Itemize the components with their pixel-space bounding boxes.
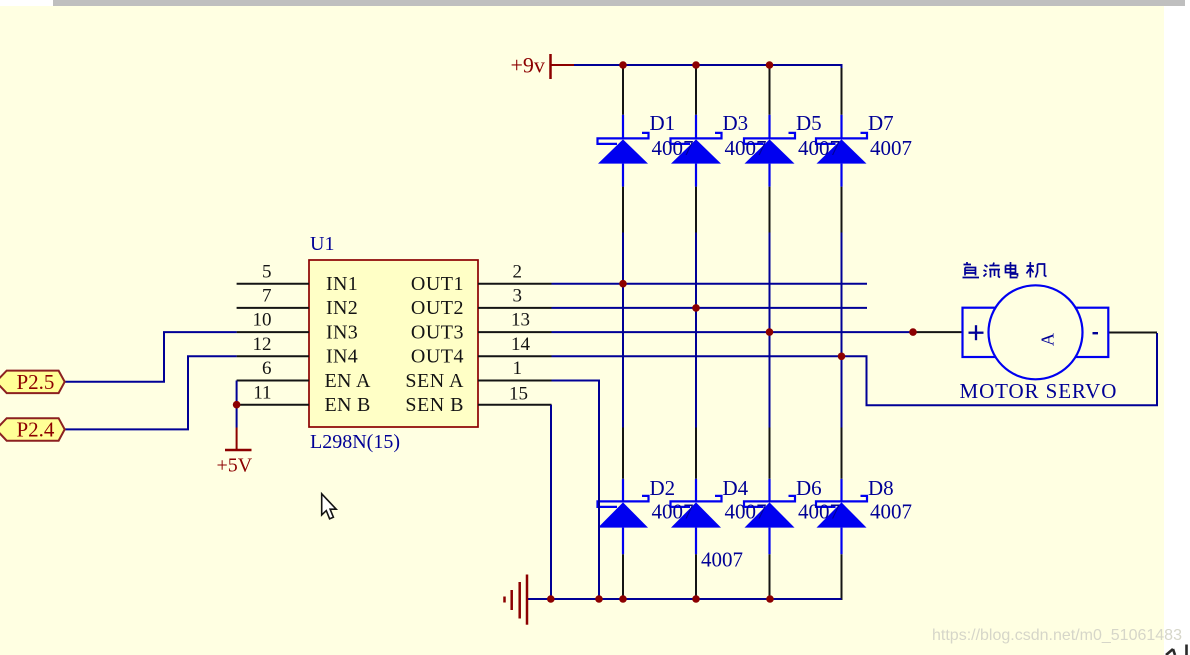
svg-text:A: A bbox=[1038, 333, 1058, 346]
svg-text:15: 15 bbox=[509, 383, 528, 404]
svg-text:IN4: IN4 bbox=[326, 346, 358, 368]
wire OUT4 row bbox=[552, 333, 1158, 405]
junction OUT3 D5 bbox=[766, 328, 774, 336]
pin 3 OUT2 bbox=[478, 307, 552, 309]
junction ground SEN B bbox=[547, 595, 555, 603]
motor body circle bbox=[989, 285, 1083, 379]
svg-text:D4: D4 bbox=[723, 476, 749, 500]
svg-text:IN1: IN1 bbox=[326, 273, 358, 295]
label Chinese DC motor bbox=[963, 262, 1047, 278]
svg-text:14: 14 bbox=[511, 334, 531, 355]
diode D8 bbox=[816, 479, 867, 554]
svg-text:IN2: IN2 bbox=[326, 297, 358, 319]
ground symbol bbox=[505, 575, 528, 625]
junction ground D4 bbox=[692, 595, 700, 603]
svg-text:OUT2: OUT2 bbox=[411, 297, 464, 319]
pin 11 EN B bbox=[237, 404, 309, 406]
wire column D5 upper black bbox=[769, 67, 771, 115]
wire SEN A bbox=[552, 381, 600, 600]
svg-text:5: 5 bbox=[262, 261, 272, 282]
junction ground SEN A bbox=[595, 595, 603, 603]
junction OUT4 D7 bbox=[838, 353, 846, 361]
svg-text:2: 2 bbox=[513, 261, 523, 282]
svg-text:OUT4: OUT4 bbox=[411, 346, 464, 368]
pin 6 EN A bbox=[237, 380, 309, 382]
svg-text:L298N(15): L298N(15) bbox=[310, 431, 400, 453]
junction EN B +5V bbox=[233, 401, 241, 409]
svg-text:13: 13 bbox=[511, 310, 530, 331]
diode D2 bbox=[598, 479, 649, 554]
char dian bbox=[1006, 262, 1018, 278]
wire column D6 black above diode bbox=[769, 428, 771, 479]
diode D3 bbox=[671, 115, 722, 187]
wire P2.5 to IN3 bbox=[65, 332, 237, 382]
svg-text:D2: D2 bbox=[650, 476, 676, 500]
wire column D8 black above diode bbox=[841, 428, 843, 479]
svg-text:4007: 4007 bbox=[701, 548, 743, 572]
char ji bbox=[1027, 262, 1047, 278]
pin 12 IN4 bbox=[237, 355, 309, 357]
pin 15 SEN B bbox=[478, 404, 552, 406]
junction ground D6 bbox=[766, 595, 774, 603]
wire column D5 mid black bbox=[769, 187, 771, 233]
svg-text:4007: 4007 bbox=[652, 500, 694, 524]
motor left pin bbox=[913, 331, 963, 333]
svg-text:+5V: +5V bbox=[217, 455, 253, 477]
svg-text:D3: D3 bbox=[723, 111, 749, 135]
diode D7 bbox=[816, 115, 867, 187]
pin 7 IN2 bbox=[237, 307, 309, 309]
wire column D3 mid black bbox=[695, 187, 697, 233]
motor terminal box bbox=[963, 308, 1109, 357]
power +5V pin bbox=[236, 428, 238, 451]
motor plus terminal bbox=[969, 325, 984, 340]
pin 10 IN3 bbox=[237, 331, 309, 333]
svg-text:D7: D7 bbox=[868, 111, 894, 135]
svg-text:D1: D1 bbox=[650, 111, 676, 135]
wire column D6 lower black bbox=[769, 554, 771, 599]
char liu bbox=[984, 263, 1001, 278]
svg-text:4007: 4007 bbox=[725, 500, 767, 524]
pin 14 OUT4 bbox=[478, 355, 552, 357]
svg-text:4007: 4007 bbox=[652, 136, 694, 160]
svg-text:EN A: EN A bbox=[325, 370, 371, 392]
mouse cursor bbox=[322, 494, 337, 519]
wire column D7 mid black bbox=[841, 187, 843, 233]
wire column D5 navy bbox=[769, 233, 771, 428]
wire column D1 upper black bbox=[622, 67, 624, 115]
diode D1 bbox=[598, 115, 649, 187]
wire column D7 upper black bbox=[841, 68, 843, 115]
svg-text:4007: 4007 bbox=[798, 500, 840, 524]
wire column D3 upper black bbox=[695, 67, 697, 115]
power +5V bar bbox=[225, 449, 252, 452]
pin 2 OUT1 bbox=[478, 283, 552, 285]
wire column D2 lower black bbox=[622, 554, 624, 599]
svg-text:MOTOR SERVO: MOTOR SERVO bbox=[960, 379, 1118, 403]
wire column D7 navy bbox=[841, 233, 843, 428]
wire column D2 black above diode bbox=[622, 428, 624, 479]
junction top rail D3 bbox=[692, 61, 700, 69]
svg-text:SEN A: SEN A bbox=[405, 370, 464, 392]
wire column D4 black above diode bbox=[695, 428, 697, 479]
svg-text:6: 6 bbox=[262, 358, 272, 379]
svg-text:OUT3: OUT3 bbox=[411, 321, 464, 343]
junction top rail D1 bbox=[619, 61, 627, 69]
svg-text:SEN B: SEN B bbox=[405, 394, 464, 416]
svg-text:4007: 4007 bbox=[725, 136, 767, 160]
wire OUT1 row bbox=[552, 283, 868, 285]
wire ground rail bbox=[527, 598, 842, 600]
motor minus terminal bbox=[1093, 332, 1099, 334]
svg-text:4007: 4007 bbox=[870, 500, 912, 524]
wire OUT3 row bbox=[552, 331, 914, 333]
junction OUT3 motor bbox=[909, 328, 917, 336]
svg-text:10: 10 bbox=[253, 310, 272, 331]
wire P2.4 to IN4 bbox=[65, 356, 237, 429]
junction top rail D5 bbox=[766, 61, 774, 69]
diode D5 bbox=[744, 115, 795, 187]
port flag P2.4 bbox=[0, 418, 65, 442]
svg-text:P2.5: P2.5 bbox=[17, 370, 55, 394]
svg-text:+9v: +9v bbox=[511, 53, 545, 78]
svg-text:U1: U1 bbox=[310, 233, 334, 255]
svg-text:11: 11 bbox=[253, 382, 271, 403]
wire column D8 lower black bbox=[841, 554, 843, 600]
op chip U1 body bbox=[309, 260, 478, 427]
pin 5 IN1 bbox=[237, 283, 309, 285]
motor right pin bbox=[1108, 332, 1157, 334]
wire column D1 mid black bbox=[622, 187, 624, 233]
junction OUT2 D3 bbox=[692, 304, 700, 312]
svg-text:4007: 4007 bbox=[798, 136, 840, 160]
bottom right partial glyphs bbox=[1166, 645, 1187, 655]
svg-text:4007: 4007 bbox=[870, 136, 912, 160]
svg-text:D5: D5 bbox=[796, 111, 822, 135]
svg-text:D8: D8 bbox=[868, 476, 894, 500]
wire EN A to EN B junction bbox=[236, 381, 238, 428]
junction ground D2 bbox=[619, 595, 627, 603]
svg-text:EN B: EN B bbox=[325, 394, 371, 416]
diode D4 bbox=[671, 479, 722, 554]
svg-text:3: 3 bbox=[513, 286, 523, 307]
pin 13 OUT3 bbox=[478, 331, 552, 333]
power +9v pin bbox=[551, 64, 575, 66]
wire column D4 lower black bbox=[695, 554, 697, 599]
junction OUT1 D1 bbox=[619, 280, 627, 288]
svg-text:D6: D6 bbox=[796, 476, 822, 500]
wire SEN B bbox=[550, 405, 552, 599]
svg-text:OUT1: OUT1 bbox=[411, 273, 464, 295]
svg-text:P2.4: P2.4 bbox=[17, 418, 55, 442]
wire column D1 navy bbox=[622, 233, 624, 428]
svg-text:12: 12 bbox=[253, 334, 272, 355]
wire top rail bbox=[574, 65, 842, 68]
port flag P2.5 bbox=[0, 370, 65, 394]
svg-text:1: 1 bbox=[513, 358, 523, 379]
pin 1 SEN A bbox=[478, 380, 552, 382]
char zhi bbox=[963, 262, 980, 278]
wire OUT2 row bbox=[552, 307, 868, 309]
svg-text:IN3: IN3 bbox=[326, 321, 358, 343]
diode D6 bbox=[744, 479, 795, 554]
wire column D3 navy bbox=[695, 233, 697, 428]
power +9v bar bbox=[549, 54, 552, 79]
svg-text:7: 7 bbox=[262, 286, 272, 307]
